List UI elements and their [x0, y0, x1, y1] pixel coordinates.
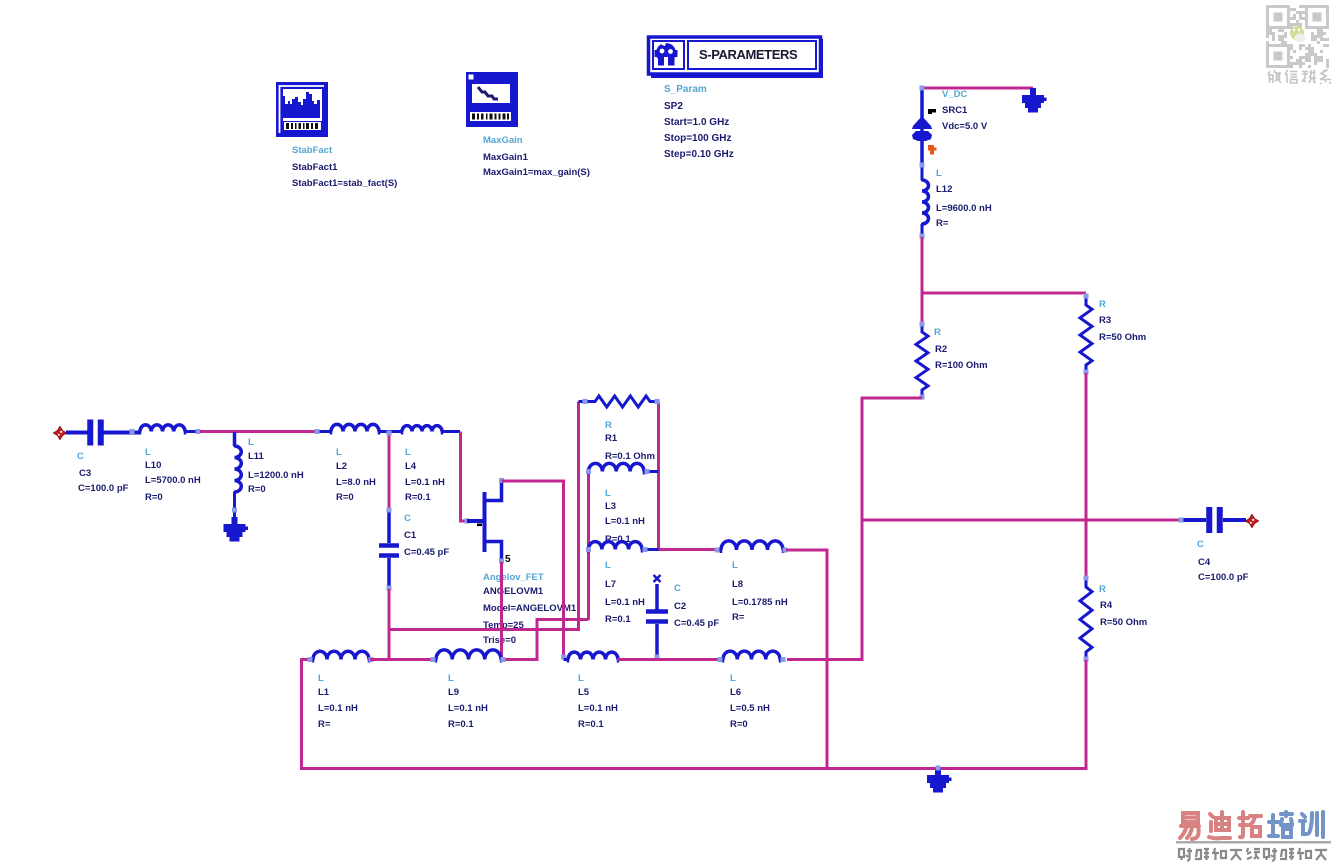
svg-text:R2: R2: [935, 344, 947, 355]
svg-text:L: L: [732, 560, 738, 571]
svg-text:L=0.5 nH: L=0.5 nH: [730, 703, 770, 714]
svg-text:MaxGain: MaxGain: [483, 135, 523, 146]
svg-text:Start=1.0 GHz: Start=1.0 GHz: [664, 117, 729, 128]
svg-text:C: C: [404, 513, 411, 524]
svg-text:R=0: R=0: [730, 719, 748, 730]
svg-text:R=0: R=0: [145, 492, 163, 503]
port P1 input term: [54, 427, 67, 440]
S_Param labels: [664, 84, 734, 160]
wire R4 to bottom rail: [302, 658, 1087, 769]
R1 labels: [605, 420, 655, 462]
svg-text:L: L: [605, 488, 611, 499]
svg-text:L=5700.0 nH: L=5700.0 nH: [145, 475, 201, 486]
svg-text:L: L: [730, 673, 736, 684]
V_DC labels: [942, 89, 988, 132]
svg-text:R: R: [1099, 299, 1106, 310]
wire node A to R2: [921, 293, 924, 324]
svg-text:S-PARAMETERS: S-PARAMETERS: [699, 47, 798, 62]
L2 labels: [336, 447, 376, 503]
svg-text:C: C: [77, 451, 84, 462]
L7 labels: [605, 560, 645, 625]
svg-text:L=1200.0 nH: L=1200.0 nH: [248, 470, 304, 481]
wire source to bottom row: [500, 562, 503, 660]
svg-text:SP2: SP2: [664, 101, 683, 112]
svg-text:R=0.1 Ohm: R=0.1 Ohm: [605, 451, 655, 462]
svg-text:ANGELOVM1: ANGELOVM1: [483, 586, 544, 597]
svg-text:R=50 Ohm: R=50 Ohm: [1100, 617, 1147, 628]
svg-text:L=9600.0 nH: L=9600.0 nH: [936, 203, 992, 214]
port P2 output term: [1246, 515, 1259, 528]
L1 labels: [318, 673, 358, 730]
svg-text:L5: L5: [578, 687, 590, 698]
svg-text:L9: L9: [448, 687, 459, 698]
inductor L5: [564, 652, 619, 662]
svg-text:R4: R4: [1100, 600, 1113, 611]
svg-text:C: C: [674, 583, 681, 594]
inductor L7: [589, 542, 659, 553]
svg-text:R=: R=: [936, 218, 949, 229]
svg-text:L=0.1785 nH: L=0.1785 nH: [732, 597, 788, 608]
svg-text:R=: R=: [318, 719, 331, 730]
wire R2 bottom to drain column: [787, 398, 922, 660]
V_DC source SRC1: [912, 90, 936, 164]
svg-text:C: C: [1197, 539, 1204, 550]
ground G2 below L11: [232, 517, 238, 525]
wire node A to R3: [921, 292, 1087, 295]
wire gate feed: [461, 432, 468, 522]
wire H1 jog to bottom row: [504, 620, 589, 660]
svg-text:L=0.1 nH: L=0.1 nH: [405, 477, 445, 488]
svg-text:L1: L1: [318, 687, 330, 698]
svg-text:StabFact: StabFact: [292, 145, 333, 156]
logo underline: [1176, 841, 1331, 844]
svg-text:L: L: [448, 673, 454, 684]
svg-text:R: R: [934, 327, 941, 338]
svg-text:L7: L7: [605, 579, 616, 590]
svg-text:R=0.1: R=0.1: [448, 719, 474, 730]
svg-text:C=0.45 pF: C=0.45 pF: [404, 547, 449, 558]
svg-text:SRC1: SRC1: [942, 105, 968, 116]
L4 labels: [405, 447, 445, 503]
svg-text:Trise=0: Trise=0: [483, 635, 516, 646]
svg-text:R3: R3: [1099, 315, 1111, 326]
wire C1 to bottom row: [388, 589, 391, 660]
L8 labels: [732, 560, 788, 623]
L9 labels: [448, 673, 488, 730]
wire L8 to drain column / down to rail: [786, 550, 827, 768]
L6 labels: [730, 673, 770, 730]
C4 labels: [1197, 539, 1249, 583]
svg-text:L=0.1 nH: L=0.1 nH: [448, 703, 488, 714]
svg-text:Vdc=5.0 V: Vdc=5.0 V: [942, 121, 988, 132]
svg-text:L3: L3: [605, 501, 616, 512]
svg-text:R=: R=: [732, 612, 745, 623]
wire H2 from C1 to column A: [389, 628, 580, 631]
svg-text:R=0.1: R=0.1: [605, 614, 631, 625]
current probe arrow (orange): [928, 145, 937, 155]
ground G1 top right: [1030, 88, 1036, 96]
L11 labels: [248, 437, 304, 495]
training logo text: [1180, 812, 1323, 839]
R2 labels: [934, 327, 988, 371]
svg-text:L: L: [936, 168, 942, 179]
svg-text:MaxGain1=max_gain(S): MaxGain1=max_gain(S): [483, 167, 590, 178]
capacitor C3: [66, 420, 140, 446]
svg-text:L6: L6: [730, 687, 741, 698]
L10 labels: [145, 447, 201, 503]
StabFact measurement block icon: [276, 82, 328, 137]
svg-text:L=0.1 nH: L=0.1 nH: [318, 703, 358, 714]
svg-text:L: L: [336, 447, 342, 458]
svg-text:L=0.1 nH: L=0.1 nH: [578, 703, 618, 714]
C1 labels: [404, 513, 449, 558]
R4 labels: [1099, 584, 1147, 628]
svg-text:L: L: [145, 447, 151, 458]
inductor L4: [402, 426, 460, 435]
svg-text:R=0: R=0: [336, 492, 354, 503]
svg-text:C1: C1: [404, 530, 417, 541]
wire L1 to L9: [370, 658, 436, 661]
svg-text:L11: L11: [248, 451, 265, 462]
svg-text:L12: L12: [936, 184, 952, 195]
C2 labels: [674, 583, 719, 629]
svg-text:StabFact1=stab_fact(S): StabFact1=stab_fact(S): [292, 178, 397, 189]
inductor L1: [313, 651, 369, 659]
wire R3 to R4: [1085, 373, 1088, 579]
svg-text:L: L: [605, 560, 611, 571]
inductor L6: [723, 651, 780, 659]
svg-text:C=0.45 pF: C=0.45 pF: [674, 618, 719, 629]
capacitor C1 (shunt): [379, 509, 399, 590]
inductor L11 (shunt): [234, 432, 242, 519]
svg-text:L: L: [318, 673, 324, 684]
inductor L9: [436, 650, 501, 660]
svg-text:Stop=100 GHz: Stop=100 GHz: [664, 133, 732, 144]
svg-text:R=0.1: R=0.1: [578, 719, 604, 730]
wire L7 row to L8: [659, 548, 718, 551]
inductor L2: [317, 424, 402, 434]
inductor L10: [140, 425, 201, 435]
R3 labels: [1099, 299, 1146, 343]
wire L12 to node A: [921, 237, 924, 294]
svg-text:C3: C3: [79, 468, 91, 479]
svg-text:R1: R1: [605, 433, 618, 444]
wire VDC top to ground: [922, 87, 1033, 90]
inductor L12: [921, 164, 928, 237]
svg-text:L10: L10: [145, 460, 161, 471]
svg-text:C4: C4: [1198, 557, 1211, 568]
svg-text:5: 5: [505, 554, 511, 565]
svg-text:L=0.1 nH: L=0.1 nH: [605, 597, 645, 608]
wire drain to L5: [502, 481, 564, 660]
wire L10 to L2: [200, 430, 317, 433]
FET labels: [483, 572, 577, 646]
svg-text:R=0.1: R=0.1: [405, 492, 431, 503]
resistor R2: [916, 323, 928, 399]
wire output row: [861, 519, 1182, 522]
svg-text:V_DC: V_DC: [942, 89, 967, 100]
svg-text:C=100.0 pF: C=100.0 pF: [78, 483, 129, 494]
transistor ANGELOVM1 (Angelov FET): [467, 480, 502, 563]
svg-text:Step=0.10 GHz: Step=0.10 GHz: [664, 149, 734, 160]
svg-text:C2: C2: [674, 601, 686, 612]
svg-text:R=50 Ohm: R=50 Ohm: [1099, 332, 1146, 343]
C3 labels: [77, 451, 129, 494]
svg-text:L2: L2: [336, 461, 347, 472]
svg-text:L=8.0 nH: L=8.0 nH: [336, 477, 376, 488]
wechat contact text: [1268, 70, 1331, 84]
svg-text:S_Param: S_Param: [664, 84, 707, 95]
svg-text:R=100 Ohm: R=100 Ohm: [935, 360, 988, 371]
svg-text:R: R: [1099, 584, 1106, 595]
svg-text:L8: L8: [732, 579, 743, 590]
svg-text:C=100.0 pF: C=100.0 pF: [1198, 572, 1249, 583]
resistor R3: [1080, 296, 1092, 374]
capacitor C2 (floating top pin): [646, 575, 668, 659]
svg-text:L=0.1 nH: L=0.1 nH: [605, 516, 645, 527]
resistor R4: [1080, 578, 1092, 661]
ground G3 on bottom rail: [935, 768, 941, 776]
svg-text:R=0: R=0: [248, 484, 266, 495]
QR code watermark: [1266, 5, 1329, 68]
svg-text:L: L: [248, 437, 254, 448]
inductor L3: [589, 463, 659, 474]
MaxGain measurement block icon: [466, 72, 518, 127]
wire column B (L3/L7 left) down: [587, 472, 590, 621]
L3 labels: [605, 488, 645, 545]
L5 labels: [578, 673, 618, 730]
S-PARAMETERS simulation block: [649, 37, 824, 78]
wire bottom row left segment: [302, 658, 314, 661]
L12 labels: [936, 168, 992, 229]
inductor L8: [717, 541, 787, 553]
StabFact labels: [292, 145, 397, 189]
wire junction L2/L4 down to C1: [388, 433, 391, 509]
MaxGain labels: [483, 135, 590, 178]
svg-text:L4: L4: [405, 461, 417, 472]
svg-text:L: L: [405, 447, 411, 458]
wire column A (R1 left) down: [577, 402, 580, 631]
wire column right (R1/L3/L7 right): [657, 402, 660, 552]
capacitor C4: [1182, 507, 1246, 533]
svg-text:R: R: [605, 420, 612, 431]
svg-text:MaxGain1: MaxGain1: [483, 152, 529, 163]
svg-text:StabFact1: StabFact1: [292, 162, 338, 173]
svg-text:Angelov_FET: Angelov_FET: [483, 572, 544, 583]
wire L5 to L6 via C2 node: [617, 658, 723, 661]
resistor R1 (feedback): [579, 396, 658, 407]
logo subtitle: [1179, 848, 1327, 861]
svg-text:L: L: [578, 673, 584, 684]
